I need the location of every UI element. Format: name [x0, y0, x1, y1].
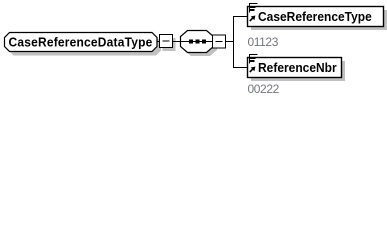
- svg-text:CaseReferenceDataType: CaseReferenceDataType: [8, 35, 152, 50]
- svg-text:CaseReferenceType: CaseReferenceType: [258, 9, 372, 24]
- svg-text:00222: 00222: [248, 82, 280, 96]
- svg-text:01123: 01123: [248, 35, 279, 49]
- svg-text:ReferenceNbr: ReferenceNbr: [258, 60, 337, 75]
